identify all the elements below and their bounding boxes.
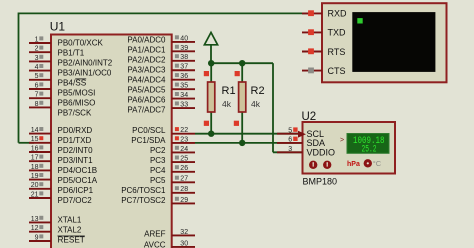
svg-text:12: 12	[31, 225, 39, 232]
svg-text:U2: U2	[302, 111, 317, 123]
svg-text:BMP180: BMP180	[303, 177, 338, 187]
svg-text:23: 23	[180, 136, 188, 143]
svg-text:VDDIO: VDDIO	[307, 148, 336, 158]
svg-text:4k: 4k	[251, 99, 261, 109]
svg-text:17: 17	[31, 155, 39, 162]
svg-text:PC7/TOSC2: PC7/TOSC2	[121, 196, 166, 205]
svg-text:28: 28	[180, 186, 188, 193]
svg-text:PA7/ADC7: PA7/ADC7	[127, 106, 166, 115]
svg-text:16: 16	[31, 145, 39, 152]
svg-text:PA0/ADC0: PA0/ADC0	[127, 36, 166, 45]
svg-text:>: >	[340, 137, 344, 144]
svg-text:33: 33	[180, 101, 188, 108]
svg-text:PA1/ADC1: PA1/ADC1	[127, 46, 166, 55]
svg-text:40: 40	[180, 35, 188, 42]
svg-text:34: 34	[180, 92, 188, 99]
svg-text:PC6/TOSC1: PC6/TOSC1	[121, 186, 166, 195]
svg-text:PD4/OC1B: PD4/OC1B	[58, 166, 98, 175]
svg-text:PA4/ADC4: PA4/ADC4	[127, 76, 166, 85]
svg-text:1: 1	[35, 36, 39, 43]
svg-text:15: 15	[31, 136, 39, 143]
svg-text:PB1/T1: PB1/T1	[58, 49, 85, 58]
svg-text:RESET: RESET	[58, 236, 85, 245]
svg-text:PC5: PC5	[150, 176, 166, 185]
svg-text:PD2/INT0: PD2/INT0	[58, 146, 94, 155]
svg-text:36: 36	[180, 73, 188, 80]
svg-text:3: 3	[35, 55, 39, 62]
svg-text:39: 39	[180, 45, 188, 52]
svg-text:3: 3	[288, 146, 292, 153]
svg-text:PA2/ADC2: PA2/ADC2	[127, 56, 166, 65]
svg-text:CTS: CTS	[328, 66, 346, 76]
svg-text:R2: R2	[251, 85, 265, 97]
svg-text:hPa: hPa	[347, 161, 360, 168]
svg-text:5: 5	[288, 127, 292, 134]
svg-text:R1: R1	[222, 85, 236, 97]
svg-text:AREF: AREF	[144, 230, 165, 239]
svg-text:PD0/RXD: PD0/RXD	[58, 126, 93, 135]
svg-text:PB2/AIN0/INT2: PB2/AIN0/INT2	[58, 59, 113, 68]
svg-text:27: 27	[180, 176, 188, 183]
svg-text:4: 4	[35, 64, 39, 71]
svg-text:PB5/MOSI: PB5/MOSI	[58, 88, 96, 97]
svg-text:6: 6	[288, 137, 292, 144]
svg-text:19: 19	[31, 173, 39, 180]
svg-text:PC3: PC3	[150, 156, 166, 165]
svg-text:29: 29	[180, 197, 188, 204]
svg-text:25.2: 25.2	[362, 145, 377, 156]
svg-text:PB0/T0/XCK: PB0/T0/XCK	[58, 39, 104, 48]
svg-text:AVCC: AVCC	[144, 240, 166, 248]
svg-text:20: 20	[31, 182, 39, 189]
svg-text:PC2: PC2	[150, 146, 166, 155]
svg-text:PD1/TXD: PD1/TXD	[58, 136, 92, 145]
svg-text:2: 2	[35, 46, 39, 53]
svg-text:30: 30	[180, 240, 188, 247]
svg-text:35: 35	[180, 83, 188, 90]
svg-text:PB6/MISO: PB6/MISO	[58, 98, 96, 107]
svg-text:18: 18	[31, 164, 39, 171]
svg-text:6: 6	[35, 82, 39, 89]
svg-text:PA6/ADC6: PA6/ADC6	[127, 96, 166, 105]
svg-text:PC0/SCL: PC0/SCL	[132, 126, 166, 135]
svg-text:21: 21	[31, 191, 39, 198]
svg-text:PB4/SS: PB4/SS	[58, 79, 87, 88]
svg-text:32: 32	[180, 229, 188, 236]
svg-text:PD6/ICP1: PD6/ICP1	[58, 186, 94, 195]
svg-text:13: 13	[31, 216, 39, 223]
svg-text:PD3/INT1: PD3/INT1	[58, 156, 94, 165]
svg-text:XTAL2: XTAL2	[58, 226, 82, 235]
svg-text:14: 14	[31, 127, 39, 134]
svg-text:PA5/ADC5: PA5/ADC5	[127, 86, 166, 95]
svg-text:PC4: PC4	[150, 166, 166, 175]
svg-text:PD5/OC1A: PD5/OC1A	[58, 176, 98, 185]
svg-text:5: 5	[35, 73, 39, 80]
svg-text:8: 8	[35, 101, 39, 108]
svg-text:25: 25	[180, 156, 188, 163]
svg-text:4k: 4k	[222, 99, 232, 109]
svg-text:9: 9	[35, 234, 39, 241]
svg-text:38: 38	[180, 54, 188, 61]
svg-text:RXD: RXD	[328, 9, 348, 19]
svg-text:PB3/AIN1/OC0: PB3/AIN1/OC0	[58, 69, 112, 78]
svg-text:PC1/SDA: PC1/SDA	[131, 136, 166, 145]
svg-text:°C: °C	[373, 159, 382, 168]
svg-text:24: 24	[180, 146, 188, 153]
svg-text:7: 7	[35, 92, 39, 99]
svg-text:XTAL1: XTAL1	[58, 215, 82, 224]
svg-text:TXD: TXD	[328, 28, 347, 38]
svg-text:PA3/ADC3: PA3/ADC3	[127, 66, 166, 75]
svg-text:PB7/SCK: PB7/SCK	[58, 108, 92, 117]
svg-text:26: 26	[180, 165, 188, 172]
svg-text:PD7/OC2: PD7/OC2	[58, 196, 93, 205]
svg-text:22: 22	[180, 127, 188, 134]
svg-text:U1: U1	[50, 19, 66, 33]
svg-text:37: 37	[180, 64, 188, 71]
svg-text:RTS: RTS	[328, 47, 346, 57]
